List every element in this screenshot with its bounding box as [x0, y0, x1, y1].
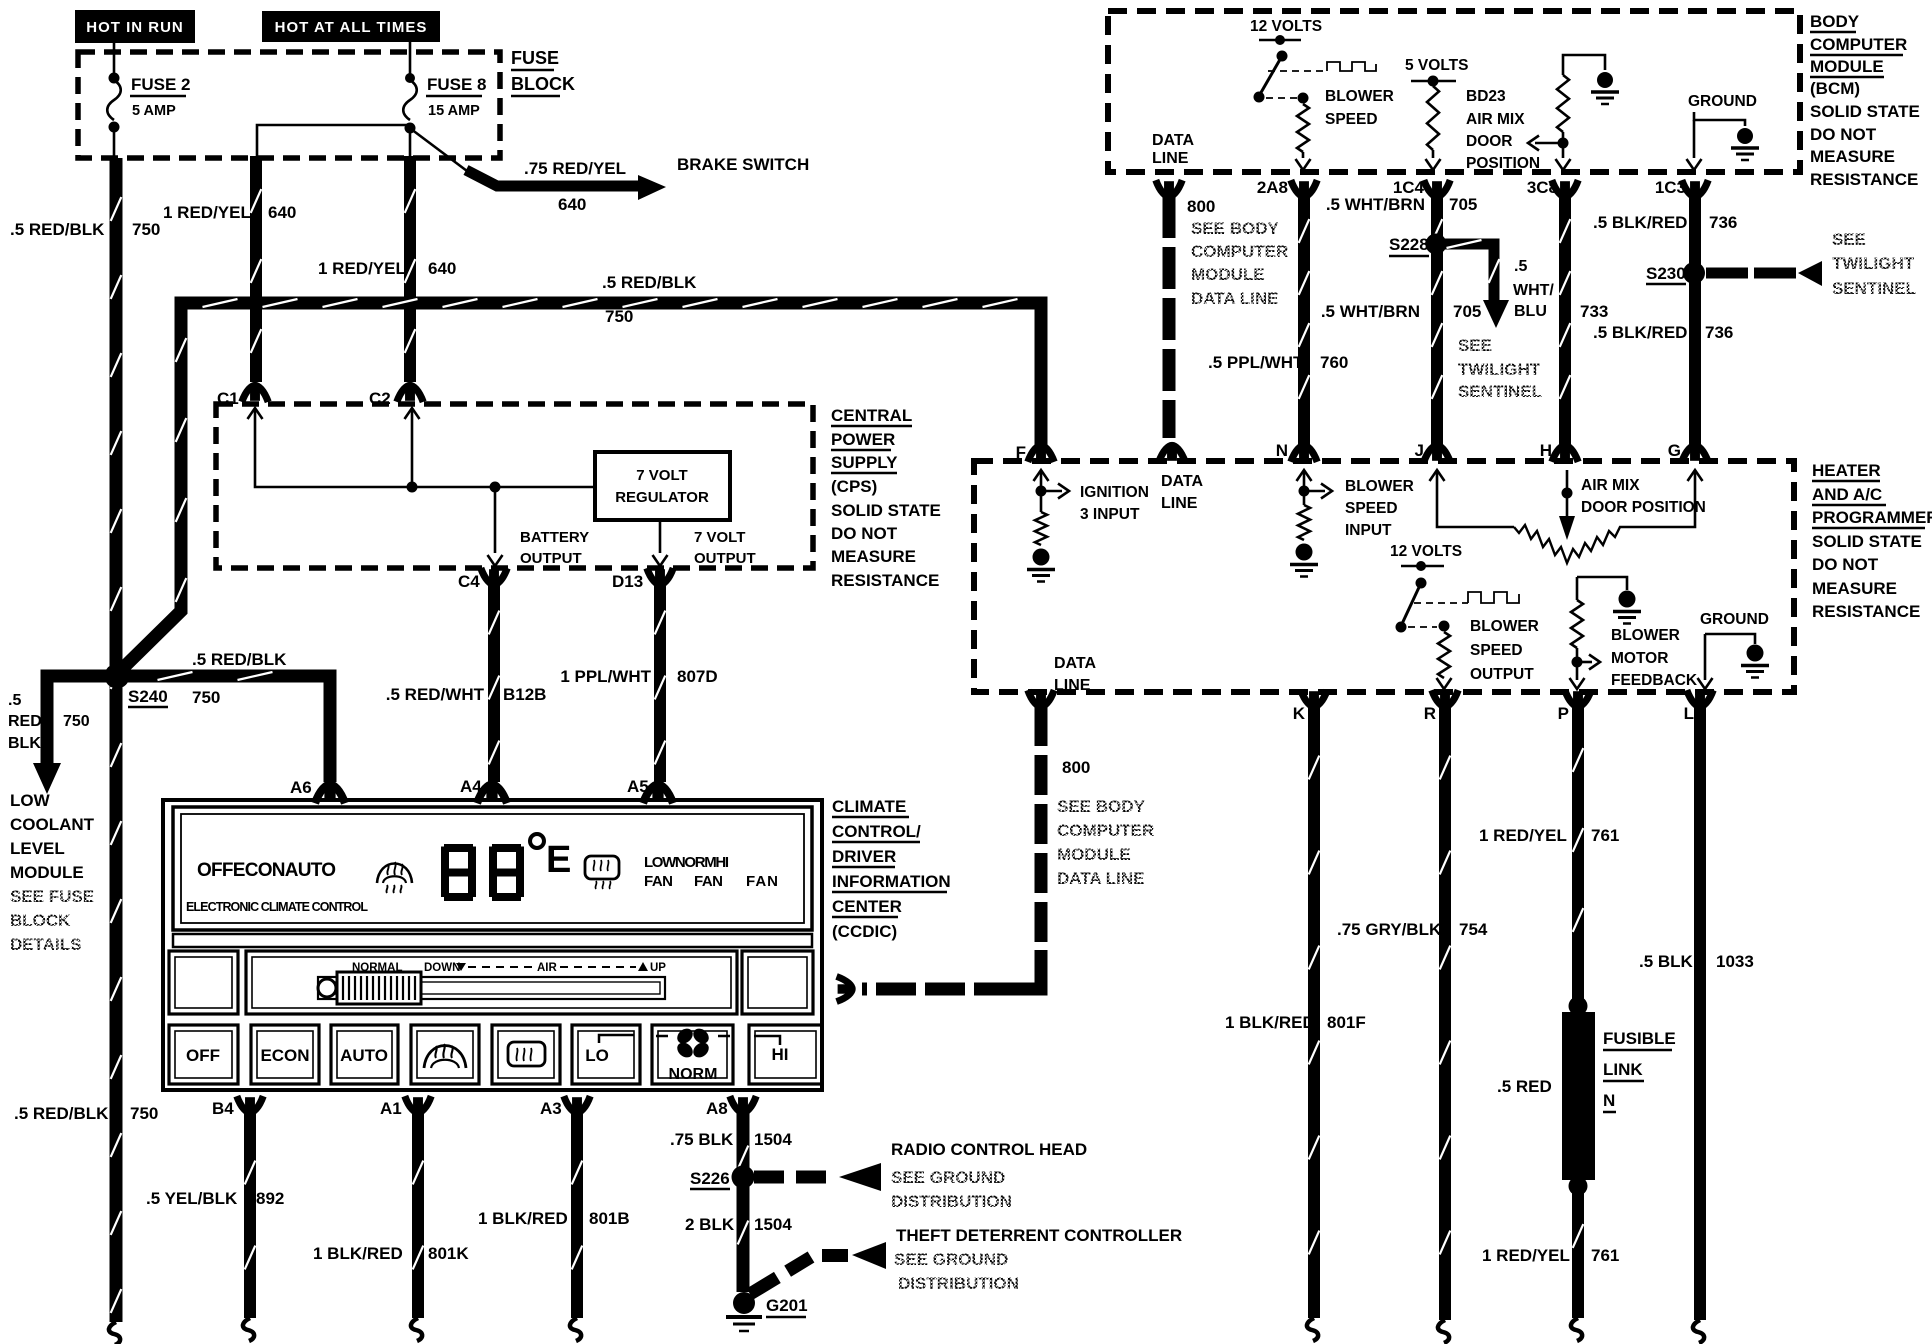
degree E indicator [530, 834, 544, 848]
svg-text:TWILIGHT: TWILIGHT [1832, 254, 1915, 273]
connector A6 [315, 785, 345, 804]
svg-text:G201: G201 [766, 1296, 808, 1315]
svg-text:.5 RED/WHT: .5 RED/WHT [386, 685, 485, 704]
svg-text:HI: HI [772, 1045, 789, 1064]
svg-text:COOLANT: COOLANT [10, 815, 95, 834]
svg-text:N: N [1276, 441, 1288, 460]
svg-text:.5: .5 [1514, 258, 1527, 275]
svg-text:760: 760 [1320, 353, 1348, 372]
wire fuse8 to brake switch (.75 RED/YEL 640) [411, 129, 471, 174]
display defrost icon [377, 864, 412, 884]
wire C4 to A4 (.5 RED/WHT B12B) [488, 584, 500, 782]
ECC buttons row [169, 1025, 238, 1084]
svg-text:FAN: FAN [746, 873, 778, 890]
svg-text:DATA: DATA [1152, 132, 1195, 149]
svg-text:2A8: 2A8 [1257, 178, 1288, 197]
svg-text:12 VOLTS: 12 VOLTS [1250, 18, 1322, 35]
svg-text:BLOWER: BLOWER [1325, 88, 1394, 105]
programmer air mix door potentiometer (pins J,H,G) [1430, 470, 1445, 481]
svg-text:640: 640 [428, 259, 456, 278]
splice S226 [732, 1166, 755, 1189]
svg-text:AIR MIX: AIR MIX [1466, 111, 1525, 128]
svg-text:750: 750 [132, 220, 160, 239]
svg-text:750: 750 [63, 713, 90, 730]
svg-text:UP: UP [650, 962, 666, 974]
body computer module (BCM) box [1108, 11, 1800, 172]
svg-text:MEASURE: MEASURE [1812, 579, 1897, 598]
svg-text:HEATER: HEATER [1812, 461, 1881, 480]
svg-text:J: J [1415, 441, 1424, 460]
svg-text:POWER: POWER [831, 430, 895, 449]
svg-text:LINE: LINE [1152, 150, 1189, 167]
ground G201 [733, 1292, 755, 1314]
svg-text:DOOR: DOOR [1466, 133, 1513, 150]
svg-text:DISTRIBUTION: DISTRIBUTION [891, 1192, 1012, 1211]
svg-text:LO: LO [585, 1046, 609, 1065]
programmer blower motor feedback circuit [1577, 577, 1627, 590]
svg-text:INFORMATION: INFORMATION [832, 872, 951, 891]
svg-text:COMPUTER: COMPUTER [1057, 821, 1154, 840]
connector C4 [481, 568, 507, 585]
svg-text:A4: A4 [460, 777, 482, 796]
svg-text:SPEED: SPEED [1345, 500, 1398, 517]
svg-text:1 RED/YEL: 1 RED/YEL [1479, 826, 1567, 845]
svg-text:OFF: OFF [186, 1046, 220, 1065]
svg-text:OFFECONAUTO: OFFECONAUTO [197, 860, 336, 881]
svg-text:LOWNORMHI: LOWNORMHI [644, 854, 729, 871]
wire S226 branch to radio control head ground [754, 1171, 836, 1184]
svg-text:LINE: LINE [1161, 495, 1198, 512]
svg-text:E: E [546, 839, 571, 881]
svg-text:LEVEL: LEVEL [10, 839, 65, 858]
svg-text:PROGRAMMER: PROGRAMMER [1812, 508, 1932, 527]
svg-text:MEASURE: MEASURE [831, 547, 916, 566]
svg-text:FUSE: FUSE [511, 48, 559, 68]
svg-text:1 PPL/WHT: 1 PPL/WHT [560, 667, 651, 686]
connector D13 [647, 568, 673, 585]
svg-text:S230: S230 [1646, 264, 1686, 283]
svg-text:RADIO CONTROL HEAD: RADIO CONTROL HEAD [891, 1140, 1087, 1159]
svg-text:BLOWER: BLOWER [1470, 618, 1539, 635]
svg-text:DATA LINE: DATA LINE [1057, 869, 1145, 888]
svg-text:1033: 1033 [1716, 952, 1754, 971]
svg-text:.75 RED/YEL: .75 RED/YEL [524, 159, 626, 178]
svg-text:DOOR POSITION: DOOR POSITION [1581, 499, 1706, 516]
svg-text:S240: S240 [128, 687, 168, 706]
svg-text:COMPUTER: COMPUTER [1191, 242, 1288, 261]
ECC display panel [173, 807, 812, 930]
svg-text:SEE BODY: SEE BODY [1057, 797, 1146, 816]
svg-text:BLU: BLU [1514, 303, 1547, 320]
svg-text:AUTO: AUTO [340, 1046, 388, 1065]
connector C2 [397, 385, 423, 402]
svg-text:P: P [1558, 704, 1569, 723]
svg-text:.75 GRY/BLK: .75 GRY/BLK [1337, 920, 1442, 939]
svg-text:.5 PPL/WHT: .5 PPL/WHT [1208, 353, 1304, 372]
button front defrost [424, 1046, 466, 1069]
button rear defrost [508, 1042, 545, 1066]
7 volt regulator U1 [595, 452, 730, 520]
svg-text:SOLID STATE: SOLID STATE [831, 501, 941, 520]
svg-text:INPUT: INPUT [1345, 522, 1392, 539]
svg-text:B4: B4 [212, 1099, 234, 1118]
svg-text:CLIMATE: CLIMATE [832, 797, 906, 816]
climate control / driver information center (CCDIC) outer case [163, 800, 822, 1090]
svg-text:MODULE: MODULE [1191, 265, 1265, 284]
wire S230 branch to twilight sentinel [1706, 268, 1797, 279]
svg-text:MOTOR: MOTOR [1611, 650, 1668, 667]
svg-text:DATA: DATA [1054, 655, 1097, 672]
svg-text:SUPPLY: SUPPLY [831, 453, 898, 472]
svg-text:BODY: BODY [1810, 12, 1860, 31]
svg-text:750: 750 [605, 307, 633, 326]
svg-text:BD23: BD23 [1466, 88, 1506, 105]
svg-text:THEFT DETERRENT CONTROLLER: THEFT DETERRENT CONTROLLER [896, 1226, 1182, 1245]
svg-text:1 BLK/RED: 1 BLK/RED [313, 1244, 403, 1263]
svg-text:15 AMP: 15 AMP [428, 103, 480, 119]
svg-text:SEE: SEE [1458, 336, 1492, 355]
battery output lead [494, 487, 497, 553]
svg-text:DO NOT: DO NOT [1812, 555, 1879, 574]
arrow to brake switch [638, 175, 666, 200]
svg-text:1504: 1504 [754, 1130, 792, 1149]
CPS internal wiring [248, 408, 263, 419]
svg-text:GROUND: GROUND [1700, 611, 1769, 628]
svg-text:801K: 801K [428, 1244, 469, 1263]
svg-text:S226: S226 [690, 1169, 730, 1188]
svg-text:705: 705 [1453, 302, 1481, 321]
svg-text:1 BLK/RED: 1 BLK/RED [1225, 1013, 1315, 1032]
7 volt output lead [659, 520, 662, 553]
wire S240 to low coolant level module (.5 RED/BLK 750) [47, 676, 117, 766]
svg-text:SOLID STATE: SOLID STATE [1810, 102, 1920, 121]
svg-text:FUSE 8: FUSE 8 [427, 75, 487, 94]
svg-text:AIR MIX: AIR MIX [1581, 477, 1640, 494]
svg-text:750: 750 [192, 688, 220, 707]
wire from HOT AT ALL TIMES to fuse 8 [409, 41, 412, 76]
svg-text:BLK: BLK [8, 735, 41, 752]
svg-text:IGNITION: IGNITION [1080, 484, 1149, 501]
svg-text:754: 754 [1459, 920, 1488, 939]
svg-text:G: G [1668, 441, 1681, 460]
connector F [1028, 445, 1054, 462]
svg-text:801F: 801F [1327, 1013, 1366, 1032]
svg-text:OUTPUT: OUTPUT [694, 550, 756, 567]
svg-text:C2: C2 [369, 389, 391, 408]
svg-text:736: 736 [1709, 213, 1737, 232]
svg-text:DOWN: DOWN [424, 962, 460, 974]
svg-text:7 VOLT: 7 VOLT [636, 467, 687, 484]
connector A4 [477, 785, 507, 804]
svg-text:RESISTANCE: RESISTANCE [1810, 170, 1918, 189]
wire branch to theft deterrent controller ground [750, 1257, 811, 1294]
wire fuse8 to C2 (1 RED/YEL 640) [409, 130, 412, 158]
slider track [318, 977, 665, 999]
svg-text:(CPS): (CPS) [831, 477, 877, 496]
wire .5 RED/BLK 750 fuse block to programmer pin F [117, 303, 1041, 674]
svg-text:CONTROL/: CONTROL/ [832, 822, 921, 841]
wire branch fuse8 to C1 (1 RED/YEL 640) [257, 125, 410, 158]
svg-text:SEE BODY: SEE BODY [1191, 219, 1280, 238]
ECC slider row [169, 951, 238, 1014]
wire S228 branch to twilight sentinel (.5 WHT/BLU) [1443, 244, 1494, 300]
svg-text:1 RED/YEL: 1 RED/YEL [163, 203, 251, 222]
svg-text:S228: S228 [1389, 235, 1429, 254]
connector C1 [242, 385, 268, 402]
svg-text:SENTINEL: SENTINEL [1832, 279, 1916, 298]
svg-text:DATA LINE: DATA LINE [1191, 289, 1279, 308]
svg-text:BLOWER: BLOWER [1345, 478, 1414, 495]
svg-text:A6: A6 [290, 778, 312, 797]
svg-text:.5 RED/BLK: .5 RED/BLK [14, 1104, 109, 1123]
svg-text:FEEDBACK: FEEDBACK [1611, 672, 1698, 689]
svg-text:FAN: FAN [644, 873, 673, 890]
svg-text:1 RED/YEL: 1 RED/YEL [1482, 1246, 1570, 1265]
BCM feedback resistor to ground (3C8) [1563, 55, 1605, 75]
svg-text:SEE GROUND: SEE GROUND [894, 1250, 1008, 1269]
button fan NORM [674, 1026, 711, 1061]
svg-text:FUSE 2: FUSE 2 [131, 75, 191, 94]
svg-text:761: 761 [1591, 826, 1619, 845]
display rear defrost icon [585, 856, 619, 879]
svg-text:BLOCK: BLOCK [10, 911, 71, 930]
svg-text:DRIVER: DRIVER [832, 847, 896, 866]
svg-text:OUTPUT: OUTPUT [1470, 666, 1534, 683]
svg-text:800: 800 [1062, 758, 1090, 777]
svg-text:.5 WHT/BRN: .5 WHT/BRN [1321, 302, 1420, 321]
svg-text:K: K [1293, 704, 1306, 723]
svg-text:DISTRIBUTION: DISTRIBUTION [898, 1274, 1019, 1293]
splice S230 [1683, 262, 1705, 284]
svg-text:1 RED/YEL: 1 RED/YEL [318, 259, 406, 278]
svg-text:BATTERY: BATTERY [520, 529, 589, 546]
wire from HOT IN RUN to fuse 2 [113, 41, 116, 76]
svg-text:HOT AT ALL TIMES: HOT AT ALL TIMES [275, 19, 428, 36]
svg-text:807D: 807D [677, 667, 718, 686]
svg-text:ECON: ECON [260, 1046, 309, 1065]
svg-text:FUSIBLE: FUSIBLE [1603, 1029, 1676, 1048]
fuse F2 5A [109, 73, 120, 84]
svg-text:C4: C4 [458, 572, 480, 591]
svg-text:A3: A3 [540, 1099, 562, 1118]
svg-text:SEE FUSE: SEE FUSE [10, 887, 94, 906]
svg-text:736: 736 [1705, 323, 1733, 342]
svg-text:.75 BLK: .75 BLK [670, 1130, 734, 1149]
svg-text:DATA: DATA [1161, 473, 1204, 490]
wire fuse2 to splice S240 and beyond (.5 RED/BLK 750) [113, 129, 116, 158]
svg-text:(BCM): (BCM) [1810, 79, 1860, 98]
data line 800 programmer to ECC [1035, 706, 1048, 950]
svg-text:LOW: LOW [10, 791, 51, 810]
svg-text:1 BLK/RED: 1 BLK/RED [478, 1209, 568, 1228]
svg-text:1504: 1504 [754, 1215, 792, 1234]
fuse block box [78, 52, 500, 158]
slider handle [318, 979, 336, 997]
svg-text:5 AMP: 5 AMP [132, 103, 176, 119]
svg-text:D13: D13 [612, 572, 643, 591]
svg-text:733: 733 [1580, 302, 1608, 321]
data line 800 BCM to programmer [1163, 196, 1176, 438]
wire S240 to ECC pin A6 (.5 RED/BLK 750) [117, 676, 330, 782]
svg-text:HOT IN RUN: HOT IN RUN [86, 19, 184, 36]
splice S228 [1426, 234, 1447, 255]
svg-text:GROUND: GROUND [1688, 93, 1757, 110]
svg-text:B12B: B12B [503, 685, 546, 704]
svg-text:BRAKE SWITCH: BRAKE SWITCH [677, 155, 809, 174]
svg-text:R: R [1424, 704, 1436, 723]
svg-text:2 BLK: 2 BLK [685, 1215, 735, 1234]
svg-text:DO NOT: DO NOT [831, 524, 898, 543]
svg-text:AIR: AIR [537, 962, 558, 974]
svg-text:3 INPUT: 3 INPUT [1080, 506, 1140, 523]
svg-text:BLOWER: BLOWER [1611, 627, 1680, 644]
svg-text:5 VOLTS: 5 VOLTS [1405, 57, 1468, 74]
svg-text:MEASURE: MEASURE [1810, 147, 1895, 166]
connector data line bottom [1028, 690, 1054, 707]
svg-text:ELECTRONIC CLIMATE CONTROL: ELECTRONIC CLIMATE CONTROL [186, 900, 368, 914]
svg-text:NORM: NORM [669, 1066, 718, 1083]
svg-text:(CCDIC): (CCDIC) [832, 922, 897, 941]
svg-text:7 VOLT: 7 VOLT [694, 529, 745, 546]
svg-text:640: 640 [558, 195, 586, 214]
svg-text:MODULE: MODULE [1057, 845, 1131, 864]
svg-text:.5 BLK/RED: .5 BLK/RED [1593, 323, 1687, 342]
svg-text:.5 YEL/BLK: .5 YEL/BLK [146, 1189, 238, 1208]
svg-text:F: F [1016, 443, 1026, 462]
svg-text:C1: C1 [217, 389, 239, 408]
svg-text:LINK: LINK [1603, 1060, 1643, 1079]
svg-text:640: 640 [268, 203, 296, 222]
wire D13 to A5 (1 PPL/WHT 807D) [654, 584, 666, 782]
svg-text:DETAILS: DETAILS [10, 935, 81, 954]
svg-text:.5: .5 [8, 692, 21, 709]
svg-text:892: 892 [256, 1189, 284, 1208]
svg-text:801B: 801B [589, 1209, 630, 1228]
svg-text:H: H [1540, 441, 1552, 460]
svg-text:SEE: SEE [1832, 230, 1866, 249]
svg-text:RESISTANCE: RESISTANCE [1812, 602, 1920, 621]
programmer blower speed input circuit (pin N) [1297, 470, 1312, 481]
heater and A/C programmer box [974, 461, 1794, 692]
svg-text:TWILIGHT: TWILIGHT [1458, 360, 1541, 379]
svg-text:SOLID STATE: SOLID STATE [1812, 532, 1922, 551]
svg-text:WHT/: WHT/ [1513, 282, 1554, 299]
programmer ignition input circuit [1034, 470, 1049, 481]
svg-text:800: 800 [1187, 197, 1215, 216]
square wave symbol [1327, 62, 1376, 71]
svg-text:761: 761 [1591, 1246, 1619, 1265]
svg-text:FAN: FAN [694, 873, 723, 890]
svg-text:SPEED: SPEED [1325, 111, 1378, 128]
svg-text:BLOCK: BLOCK [511, 74, 575, 94]
svg-text:A8: A8 [706, 1099, 728, 1118]
svg-text:SPEED: SPEED [1470, 642, 1523, 659]
splice S240 [105, 664, 130, 689]
svg-text:.5 RED/BLK: .5 RED/BLK [192, 650, 287, 669]
display 88 seven segment [441, 844, 476, 901]
svg-text:A1: A1 [380, 1099, 402, 1118]
svg-text:RED/: RED/ [8, 713, 47, 730]
fusible link N [1569, 997, 1588, 1016]
connector A5 [643, 785, 673, 804]
svg-text:750: 750 [130, 1104, 158, 1123]
svg-text:705: 705 [1449, 195, 1477, 214]
svg-text:POSITION: POSITION [1466, 155, 1540, 172]
svg-text:N: N [1603, 1091, 1615, 1110]
svg-text:CENTER: CENTER [832, 897, 902, 916]
power feed label HOT IN RUN [75, 10, 195, 43]
svg-text:.5 RED/BLK: .5 RED/BLK [10, 220, 105, 239]
BCM data line connector [1156, 180, 1182, 197]
svg-text:SENTINEL: SENTINEL [1458, 382, 1542, 401]
svg-text:MODULE: MODULE [1810, 57, 1884, 76]
svg-text:RESISTANCE: RESISTANCE [831, 571, 939, 590]
svg-text:MODULE: MODULE [10, 863, 84, 882]
fuse F8 15A [405, 73, 415, 83]
svg-text:AND A/C: AND A/C [1812, 485, 1882, 504]
svg-text:DO NOT: DO NOT [1810, 125, 1877, 144]
ECC mid band [173, 934, 812, 947]
wire below fusible link (1 RED/YEL 761) [1572, 1186, 1584, 1318]
svg-text:CENTRAL: CENTRAL [831, 406, 912, 425]
svg-text:REGULATOR: REGULATOR [615, 489, 709, 506]
svg-text:.5 RED/BLK: .5 RED/BLK [602, 273, 697, 292]
svg-text:LINE: LINE [1054, 677, 1091, 694]
svg-text:.5 BLK/RED: .5 BLK/RED [1593, 213, 1687, 232]
power feed label HOT AT ALL TIMES [262, 11, 440, 42]
svg-text:12 VOLTS: 12 VOLTS [1390, 543, 1462, 560]
svg-text:COMPUTER: COMPUTER [1810, 35, 1907, 54]
svg-text:.5 RED: .5 RED [1497, 1077, 1552, 1096]
svg-text:OUTPUT: OUTPUT [520, 550, 582, 567]
svg-text:.5 WHT/BRN: .5 WHT/BRN [1326, 195, 1425, 214]
svg-text:.5 BLK: .5 BLK [1639, 952, 1694, 971]
svg-text:SEE GROUND: SEE GROUND [891, 1168, 1005, 1187]
central power supply (CPS) box [216, 404, 813, 568]
svg-text:A5: A5 [627, 777, 649, 796]
